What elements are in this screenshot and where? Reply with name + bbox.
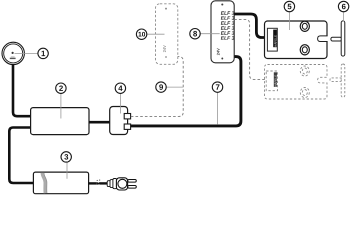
balloon 2: [56, 83, 66, 93]
port B of connector 4: [124, 124, 130, 129]
mains plug: [107, 178, 136, 190]
alternative light plate position (dashed ghost): [265, 65, 328, 100]
switch 1 (round sensor switch): [2, 42, 24, 64]
leader 10: [147, 33, 165, 35]
item number balloons: [38, 1, 349, 162]
distributor box 8: [211, 1, 234, 63]
wire driver 2 to power unit 3: [9, 128, 33, 184]
leader 8: [200, 33, 219, 35]
driver box 2: [31, 108, 89, 135]
balloon 5: [284, 1, 294, 11]
mains lead from box 3: [89, 182, 97, 184]
small inline connector on mains lead: [97, 182, 108, 184]
leader lines: [15, 12, 344, 179]
leader 2: [60, 93, 62, 118]
leader 5: [288, 12, 290, 30]
leader 6: [343, 12, 345, 22]
leader 9: [166, 86, 183, 88]
dashed extension lead 9 to remote box 10: [131, 57, 183, 117]
label wrap stripe on box 3: [42, 173, 45, 193]
balloon 6: [338, 1, 348, 11]
ghost mounting tool: [330, 64, 345, 97]
balloon 3: [61, 152, 71, 162]
balloon 10: [136, 29, 146, 39]
wire driver 2 to distributor 4: [89, 121, 110, 124]
leader 3: [66, 162, 68, 179]
leader 7: [217, 93, 219, 125]
balloon 4: [115, 83, 125, 93]
lead 7 from connector 4 to distributor 8: [131, 57, 241, 126]
light plate 5: [265, 21, 329, 59]
balloon 9: [156, 82, 166, 92]
dashed lead distributor 8 to alternative light position: [234, 19, 266, 79]
distributor connector 4: [110, 107, 128, 135]
power unit box 3: [33, 172, 88, 194]
port A of connector 4: [124, 114, 130, 119]
mounting tool 6: [331, 21, 345, 56]
leader 1: [15, 52, 38, 54]
balloon 1: [38, 48, 48, 58]
balloon 8: [190, 29, 200, 39]
ghost connector label block: [274, 72, 277, 87]
leader 4: [119, 93, 121, 113]
wire switch 1 to driver 2: [13, 64, 31, 116]
remote receiver box 10 (dashed alternative): [156, 4, 178, 65]
lead distributor 8 to light 5: [234, 14, 267, 38]
balloon 7: [212, 82, 222, 92]
